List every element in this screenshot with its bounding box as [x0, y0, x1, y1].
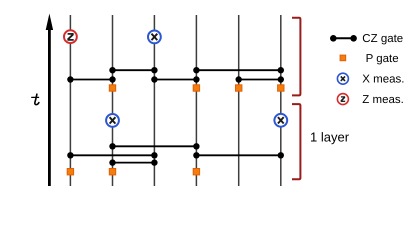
X measurement on q2 layer2 — [106, 114, 119, 127]
P gate q2 layer1 — [109, 85, 115, 91]
legend P gate icon — [340, 55, 346, 61]
CZ gate q2-q3 layer1 upper — [109, 67, 157, 73]
CZ gate q4-q6 layer2 mid — [193, 152, 284, 158]
time axis arrow t — [46, 14, 53, 187]
P gate q4 layer1 — [193, 85, 199, 91]
X measurement on q3 — [148, 31, 161, 44]
wire qubit line q4 — [195, 15, 197, 186]
CZ gate q5-q6 layer1 lower — [236, 76, 284, 82]
wire qubit line q5 — [238, 15, 240, 186]
wire qubit line q1 — [69, 15, 71, 186]
bracket layer 2 — [292, 104, 300, 179]
axis label t — [32, 94, 39, 104]
bracket layer 1 — [292, 18, 300, 96]
svg-text:1 layer: 1 layer — [310, 130, 350, 145]
CZ gate q4-q6 layer1 upper — [193, 67, 284, 73]
P gate q1 layer2 — [67, 169, 73, 175]
CZ gate q1-q2 layer1 lower — [67, 76, 116, 82]
wire qubit line q6 — [280, 15, 282, 186]
svg-text:Z meas.: Z meas. — [362, 94, 404, 106]
Z measurement on q1 — [64, 30, 77, 43]
P gate q4 layer2 — [193, 169, 199, 175]
legend CZ gate icon — [330, 35, 357, 42]
legend X meas icon — [337, 73, 348, 84]
P gate q2 layer2 — [109, 169, 115, 175]
wire qubit line q3 — [153, 15, 155, 186]
legend Z meas icon — [337, 94, 348, 105]
wire qubit line q2 — [112, 15, 114, 186]
CZ gate q3-q4 layer1 lower — [151, 76, 199, 82]
CZ gate q2-q3 layer2 low — [109, 159, 157, 165]
X measurement on q6 layer2 — [274, 114, 287, 127]
CZ gate q1-q3 layer2 mid — [67, 152, 157, 158]
svg-text:P gate: P gate — [366, 53, 399, 65]
P gate q6 layer1 — [278, 85, 284, 91]
svg-text:CZ gate: CZ gate — [362, 33, 403, 45]
CZ gate q2-q4 layer2 top — [109, 143, 199, 149]
P gate q5 layer1 — [236, 85, 242, 91]
svg-text:X meas.: X meas. — [362, 74, 404, 86]
